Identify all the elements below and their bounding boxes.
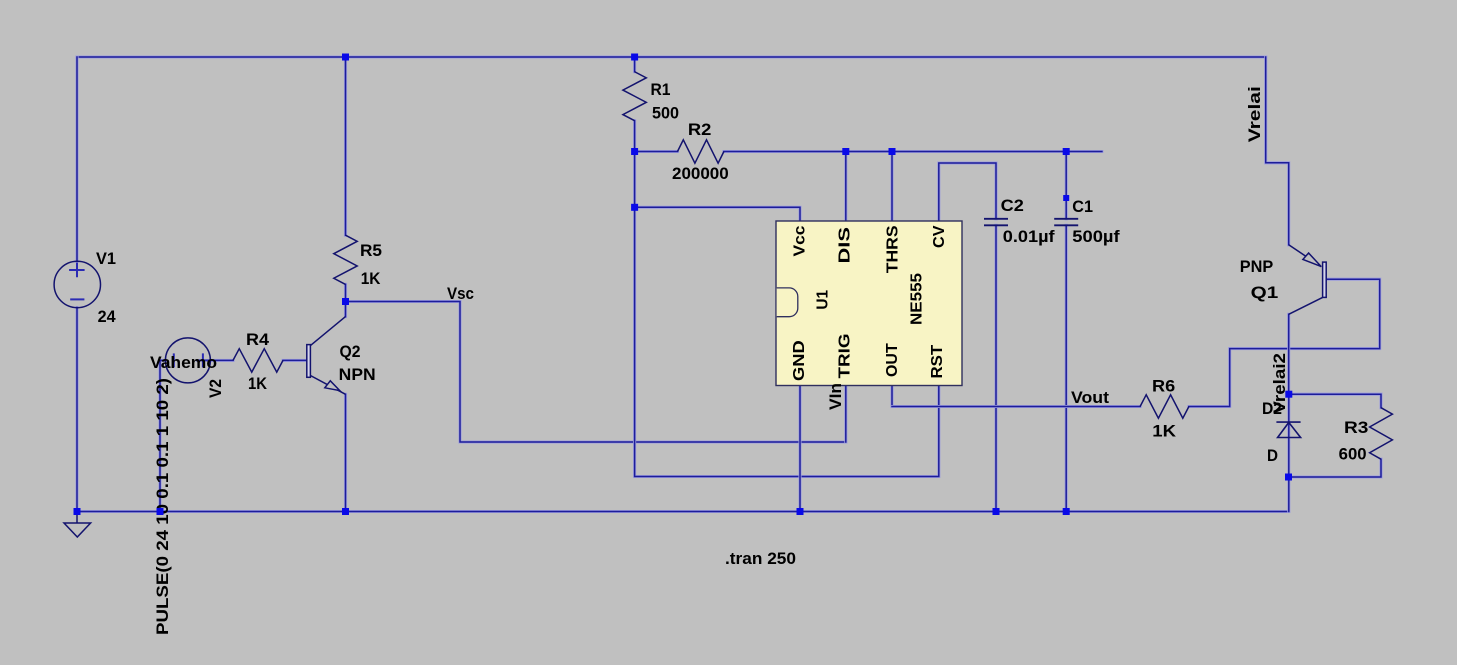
svg-text:Vsc: Vsc xyxy=(447,285,474,303)
svg-text:R1: R1 xyxy=(651,81,671,99)
capacitor C2 xyxy=(984,219,1008,226)
svg-text:NE555: NE555 xyxy=(909,273,926,325)
svg-text:RST: RST xyxy=(929,345,946,379)
capacitor C1 xyxy=(1054,219,1078,226)
svg-text:Q1: Q1 xyxy=(1251,284,1279,302)
wire R5 bottom lead xyxy=(344,284,347,301)
wire V2 left lead down to ground xyxy=(160,360,165,511)
wire ground rail xyxy=(77,510,1289,513)
resistor R5 xyxy=(334,235,357,284)
svg-text:Vrelai2: Vrelai2 xyxy=(1271,353,1289,414)
voltage source V2 xyxy=(165,338,210,383)
svg-text:GND: GND xyxy=(791,340,808,381)
node top rail / R5 xyxy=(342,54,349,61)
wire R4 left lead xyxy=(210,359,233,362)
wire Q1 emitter lead from top rail xyxy=(1266,57,1289,245)
wire diode branch xyxy=(1287,394,1290,511)
node diode top node xyxy=(1285,391,1292,398)
node R5-Q2 collector Vsc node xyxy=(342,298,349,305)
svg-text:R2: R2 xyxy=(688,121,712,139)
transistor Q1 PNP xyxy=(1289,245,1327,314)
svg-text:1K: 1K xyxy=(248,375,267,393)
wire top rail xyxy=(77,55,1266,58)
node R1-R2 node xyxy=(631,148,638,155)
node diode bottom node xyxy=(1285,474,1292,481)
node C1 wire dot xyxy=(1063,195,1069,201)
wire CV pin to C2 xyxy=(939,163,996,221)
svg-text:Vout: Vout xyxy=(1071,389,1110,407)
node ground / Q2 emitter xyxy=(342,508,349,515)
wire R1 bottom lead xyxy=(633,121,636,152)
wire TRIG pin lead xyxy=(844,386,847,443)
svg-text:VIn: VIn xyxy=(827,383,845,410)
svg-text:R4: R4 xyxy=(246,331,270,349)
node THRS tap xyxy=(889,148,896,155)
U1 notch xyxy=(777,288,798,317)
svg-text:NPN: NPN xyxy=(339,366,376,384)
wire R3 bottom wire xyxy=(1289,459,1382,477)
svg-text:DIS: DIS xyxy=(837,227,854,264)
node ground / V2 xyxy=(157,508,164,515)
wire Q2 collector stub xyxy=(344,302,347,317)
wire C2 bottom lead xyxy=(994,225,997,511)
node top rail / R1 xyxy=(631,54,638,61)
node ground / GND pin xyxy=(797,508,804,515)
wire Vcc branch xyxy=(635,207,800,221)
node DIS tap xyxy=(842,148,849,155)
wire Q1 collector lead xyxy=(1287,314,1290,394)
node C1 top tap xyxy=(1063,148,1070,155)
wire C1 top lead xyxy=(1065,152,1068,219)
svg-text:V2: V2 xyxy=(207,379,225,398)
wire R5 top lead from rail xyxy=(344,57,347,235)
resistor R6 xyxy=(1140,395,1189,418)
svg-text:D: D xyxy=(1267,447,1278,465)
wire Vsc net Q2 collector to TRIG xyxy=(346,302,846,443)
svg-text:U1: U1 xyxy=(815,290,832,310)
svg-text:R3: R3 xyxy=(1344,419,1368,437)
wire R6 right lead to Q1 base xyxy=(1189,279,1380,406)
node ground / V1 xyxy=(74,508,81,515)
svg-text:PULSE(0 24 10 0.1 0.1 1 10 2): PULSE(0 24 10 0.1 0.1 1 10 2) xyxy=(154,378,172,635)
resistor R2 xyxy=(678,140,724,163)
wire THRS pin lead xyxy=(890,152,893,222)
wire R1 node down to RST xyxy=(635,152,939,477)
svg-text:Vahemo: Vahemo xyxy=(150,354,217,372)
svg-text:1K: 1K xyxy=(1152,423,1176,441)
svg-text:0.01µf: 0.01µf xyxy=(1003,228,1055,246)
svg-text:OUT: OUT xyxy=(884,343,901,377)
voltage source V1 xyxy=(54,261,100,307)
wire mid rail R2 left xyxy=(635,150,678,153)
svg-text:TRIG: TRIG xyxy=(837,334,854,379)
svg-text:500µf: 500µf xyxy=(1072,228,1120,246)
svg-text:200000: 200000 xyxy=(672,165,729,183)
svg-text:.tran 250: .tran 250 xyxy=(725,550,796,568)
wire R1 top lead xyxy=(633,57,636,72)
wire V1 top lead xyxy=(75,57,78,262)
svg-text:R5: R5 xyxy=(360,242,382,260)
svg-text:THRS: THRS xyxy=(885,225,902,273)
op-amp U1 NE555 body xyxy=(776,221,962,386)
diode D xyxy=(1276,422,1300,437)
wire DIS pin lead xyxy=(844,152,847,222)
transistor Q2 NPN xyxy=(307,317,346,395)
svg-text:C1: C1 xyxy=(1072,198,1093,216)
wire OUT pin lead xyxy=(890,386,893,407)
wire V1 bottom lead xyxy=(75,308,78,512)
svg-text:Vcc: Vcc xyxy=(792,225,809,256)
svg-text:600: 600 xyxy=(1339,446,1367,464)
svg-text:PNP: PNP xyxy=(1240,258,1274,276)
svg-text:500: 500 xyxy=(652,105,679,123)
wire R3 top wire xyxy=(1289,394,1381,408)
resistor R1 xyxy=(623,72,646,121)
svg-text:1K: 1K xyxy=(361,270,381,288)
resistor R3 xyxy=(1370,408,1393,460)
resistor R4 xyxy=(233,349,283,372)
svg-text:24: 24 xyxy=(98,308,117,326)
wire mid rail R2 right to C1 xyxy=(724,150,1102,153)
ground xyxy=(64,512,91,538)
svg-text:C2: C2 xyxy=(1001,197,1024,215)
wire Q2 emitter down lead xyxy=(344,394,347,511)
wire C1 bottom lead xyxy=(1065,225,1068,511)
wire R4 right lead to Q2 base xyxy=(283,359,307,362)
node Vcc branch tap xyxy=(631,204,638,211)
svg-text:V1: V1 xyxy=(96,250,116,268)
wire Vout net to R6 xyxy=(892,405,1140,408)
svg-text:CV: CV xyxy=(931,225,948,248)
wire GND pin lead xyxy=(798,386,801,512)
svg-text:Vrelai: Vrelai xyxy=(1246,86,1264,142)
node ground / C2 xyxy=(993,508,1000,515)
svg-text:R6: R6 xyxy=(1152,378,1175,396)
svg-text:Q2: Q2 xyxy=(340,343,361,361)
node ground / C1 xyxy=(1063,508,1070,515)
